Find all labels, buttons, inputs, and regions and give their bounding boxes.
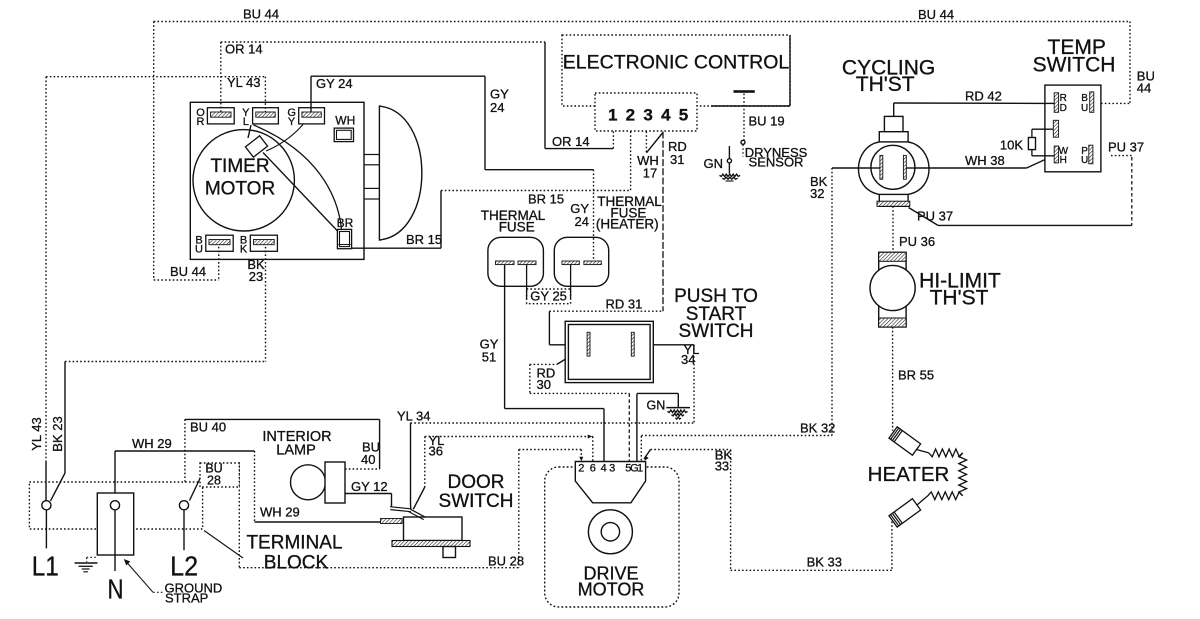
svg-text:5: 5 xyxy=(679,106,688,125)
svg-text:2: 2 xyxy=(626,106,635,125)
svg-text:YL 43: YL 43 xyxy=(227,75,261,90)
svg-text:24: 24 xyxy=(575,214,589,229)
svg-text:RD 42: RD 42 xyxy=(965,89,1002,104)
svg-text:U: U xyxy=(1081,103,1088,114)
svg-text:BU 40: BU 40 xyxy=(190,420,226,435)
svg-text:YL 43: YL 43 xyxy=(29,417,44,451)
svg-text:OR 14: OR 14 xyxy=(225,42,263,57)
svg-text:SWITCH: SWITCH xyxy=(679,321,754,342)
svg-text:RD 31: RD 31 xyxy=(606,297,643,312)
svg-text:L: L xyxy=(243,116,249,128)
svg-text:YL 34: YL 34 xyxy=(397,409,431,424)
svg-text:OR 14: OR 14 xyxy=(552,134,590,149)
svg-text:PU 36: PU 36 xyxy=(899,234,935,249)
svg-text:GY 25: GY 25 xyxy=(530,288,567,303)
svg-text:(HEATER): (HEATER) xyxy=(596,217,659,232)
svg-text:R: R xyxy=(197,116,205,128)
svg-text:D: D xyxy=(1060,103,1067,114)
svg-text:23: 23 xyxy=(249,269,263,284)
svg-text:N: N xyxy=(108,573,124,604)
svg-text:1: 1 xyxy=(637,463,643,475)
svg-text:MOTOR: MOTOR xyxy=(578,580,645,600)
svg-text:BR 55: BR 55 xyxy=(898,368,934,383)
svg-text:3: 3 xyxy=(609,463,615,475)
svg-text:GN: GN xyxy=(704,156,724,171)
svg-text:31: 31 xyxy=(670,152,684,167)
svg-text:40: 40 xyxy=(361,452,375,467)
svg-text:K: K xyxy=(240,244,248,256)
svg-text:BLOCK: BLOCK xyxy=(264,553,329,574)
svg-text:BK 33: BK 33 xyxy=(807,555,842,570)
svg-text:BU 44: BU 44 xyxy=(243,7,279,22)
svg-text:FUSE: FUSE xyxy=(499,220,535,235)
svg-text:24: 24 xyxy=(490,100,504,115)
svg-text:GY 12: GY 12 xyxy=(351,479,388,494)
svg-text:TH'ST: TH'ST xyxy=(856,73,915,96)
svg-text:LAMP: LAMP xyxy=(276,443,316,459)
svg-text:BK 32: BK 32 xyxy=(800,421,835,436)
svg-text:SWITCH: SWITCH xyxy=(1033,54,1116,77)
svg-text:32: 32 xyxy=(810,186,824,201)
svg-text:30: 30 xyxy=(537,377,551,392)
svg-text:6: 6 xyxy=(590,463,596,475)
svg-text:33: 33 xyxy=(715,459,729,474)
svg-text:3: 3 xyxy=(643,106,652,125)
svg-text:51: 51 xyxy=(482,350,496,365)
svg-text:L2: L2 xyxy=(170,550,198,581)
svg-text:H: H xyxy=(1060,155,1067,166)
svg-text:WH 29: WH 29 xyxy=(132,436,172,451)
svg-text:GN: GN xyxy=(647,399,666,413)
svg-text:BU 28: BU 28 xyxy=(488,554,524,569)
svg-text:U: U xyxy=(1081,155,1088,166)
svg-text:28: 28 xyxy=(207,474,221,488)
svg-text:WH 29: WH 29 xyxy=(260,505,300,520)
svg-text:BR 15: BR 15 xyxy=(406,232,442,247)
svg-text:SWITCH: SWITCH xyxy=(439,491,514,512)
svg-text:44: 44 xyxy=(1137,81,1151,96)
svg-text:DOOR: DOOR xyxy=(448,472,505,493)
svg-text:MOTOR: MOTOR xyxy=(205,179,275,200)
svg-text:WH 38: WH 38 xyxy=(965,153,1005,168)
svg-text:GY 24: GY 24 xyxy=(316,76,353,91)
svg-text:BU 19: BU 19 xyxy=(749,114,785,129)
svg-text:BR 15: BR 15 xyxy=(528,192,564,207)
svg-text:HEATER: HEATER xyxy=(868,463,950,486)
svg-text:BU 44: BU 44 xyxy=(170,264,206,279)
svg-text:WH: WH xyxy=(335,114,355,128)
svg-text:TIMER: TIMER xyxy=(210,156,269,177)
svg-text:10K: 10K xyxy=(1000,138,1023,153)
svg-text:1: 1 xyxy=(608,106,617,125)
svg-text:PU 37: PU 37 xyxy=(917,209,953,224)
svg-text:U: U xyxy=(195,244,203,256)
svg-text:SENSOR: SENSOR xyxy=(749,155,804,170)
svg-text:PU 37: PU 37 xyxy=(1108,140,1144,155)
svg-text:17: 17 xyxy=(643,166,657,181)
svg-text:36: 36 xyxy=(429,444,443,459)
svg-text:L1: L1 xyxy=(32,550,59,581)
svg-text:4: 4 xyxy=(661,106,671,125)
svg-text:BK 23: BK 23 xyxy=(50,416,65,451)
svg-text:BU 44: BU 44 xyxy=(918,7,954,22)
svg-text:ELECTRONIC CONTROL: ELECTRONIC CONTROL xyxy=(563,52,790,74)
svg-text:TH'ST: TH'ST xyxy=(930,287,989,310)
svg-text:Y: Y xyxy=(288,116,296,128)
svg-text:34: 34 xyxy=(681,352,695,367)
svg-text:STRAP: STRAP xyxy=(165,591,208,606)
svg-text:4: 4 xyxy=(601,463,607,475)
svg-text:2: 2 xyxy=(578,463,584,475)
svg-text:TERMINAL: TERMINAL xyxy=(246,533,342,554)
